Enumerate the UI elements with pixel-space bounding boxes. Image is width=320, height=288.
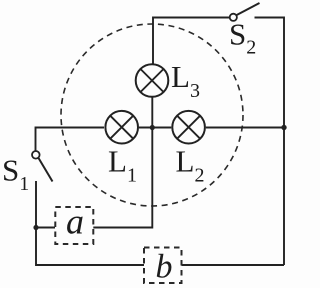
lamp L3 <box>136 64 169 97</box>
component box a <box>55 207 93 244</box>
wire top right: S2 right terminal to top-right corner then down right side <box>255 18 285 266</box>
svg-text:a: a <box>66 202 84 242</box>
svg-text:b: b <box>156 249 173 286</box>
wire left vertical: lamp row corner down to S1 <box>36 128 105 152</box>
wire bottom right segment from box b to right corner <box>182 264 285 266</box>
wire a-row: left junction to box a <box>36 227 55 229</box>
junction dot right node <box>281 125 286 130</box>
switch S2 blade <box>237 3 260 15</box>
switch S1 pivot <box>32 151 40 159</box>
junction dot left node <box>33 225 38 230</box>
wire L3 bottom down to a-row corner <box>93 97 152 228</box>
lamp L2 <box>172 111 205 144</box>
wire lamp row middle: L1 to L2 through junction <box>139 127 171 129</box>
switch S2 pivot <box>230 14 237 21</box>
component box b <box>144 248 182 284</box>
wire lamp row right: L2 to right vertical <box>206 127 284 129</box>
wire bottom left segment <box>36 181 144 265</box>
switch S1 blade <box>39 158 53 182</box>
dashed circle region <box>61 24 243 206</box>
lamp L1 <box>105 111 138 144</box>
wire top: L3 corner to S2 left terminal <box>153 18 230 65</box>
junction dot center node <box>150 125 155 130</box>
